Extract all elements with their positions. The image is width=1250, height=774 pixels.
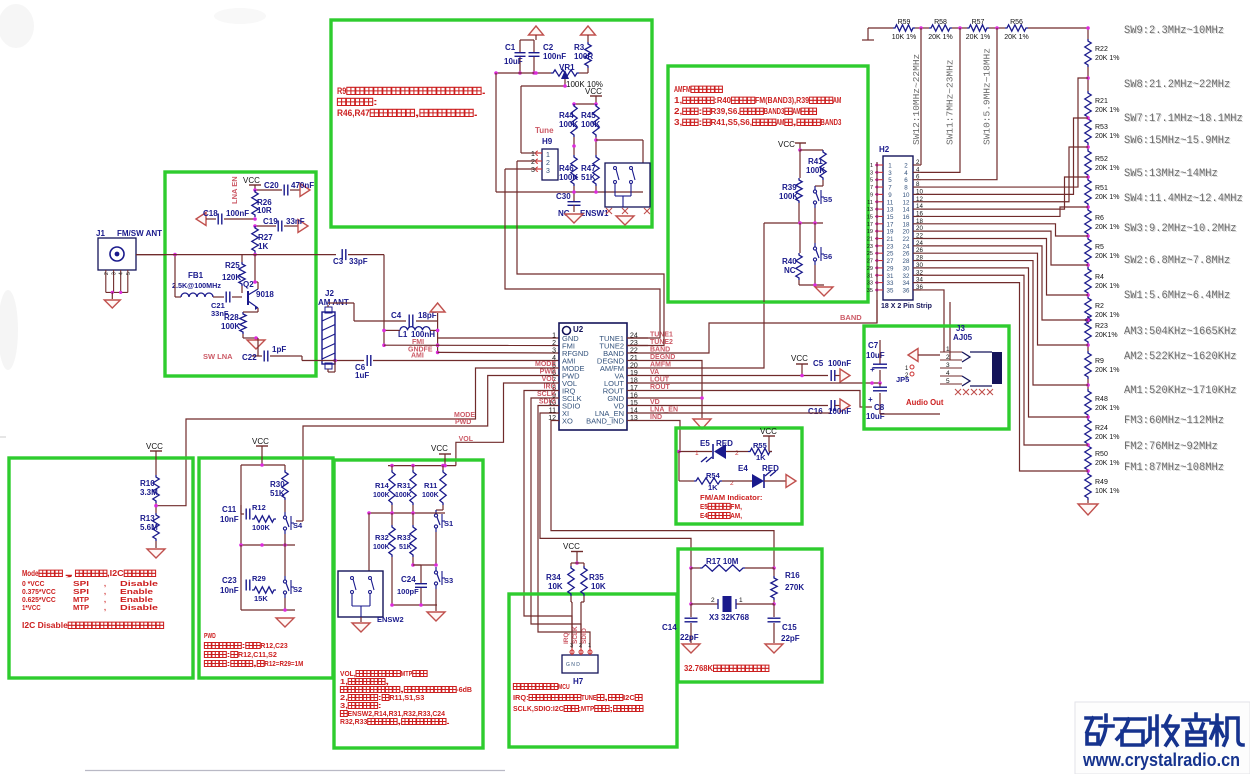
svg-text:100nF: 100nF xyxy=(828,359,851,368)
svg-text:100K: 100K xyxy=(581,120,600,129)
svg-text:13: 13 xyxy=(887,207,894,214)
svg-text:17: 17 xyxy=(887,221,894,228)
svg-text:16: 16 xyxy=(903,214,910,221)
svg-text:1: 1 xyxy=(946,346,950,353)
svg-text:R6: R6 xyxy=(1095,215,1104,222)
svg-text:I2C: I2C xyxy=(623,693,635,702)
svg-text:2: 2 xyxy=(711,597,715,604)
svg-text:J2: J2 xyxy=(325,289,334,298)
svg-text:C16: C16 xyxy=(808,407,823,416)
svg-text:AM2:522KHz~1620KHz: AM2:522KHz~1620KHz xyxy=(1124,351,1237,363)
svg-text:20K 1%: 20K 1% xyxy=(1095,434,1120,441)
svg-text:H7: H7 xyxy=(573,677,584,686)
svg-text:10nF: 10nF xyxy=(220,515,239,524)
svg-text:C20: C20 xyxy=(264,181,279,190)
svg-text:S6: S6 xyxy=(823,252,832,261)
svg-text:10K 1%: 10K 1% xyxy=(892,34,917,41)
svg-text:20K 1%: 20K 1% xyxy=(1095,460,1120,467)
svg-text:C22: C22 xyxy=(242,353,257,362)
svg-text:10K: 10K xyxy=(591,582,606,591)
svg-text:C24: C24 xyxy=(401,575,416,584)
svg-text:R25: R25 xyxy=(225,261,240,270)
svg-text:R17 10M: R17 10M xyxy=(706,557,739,566)
svg-text:Tune: Tune xyxy=(535,126,554,135)
svg-text:23: 23 xyxy=(867,244,873,250)
svg-text:100nF: 100nF xyxy=(828,407,851,416)
svg-text:FMI: FMI xyxy=(412,339,424,346)
svg-text:R12: R12 xyxy=(252,503,266,512)
svg-text::: : xyxy=(698,118,702,127)
svg-text:L1: L1 xyxy=(398,330,408,339)
svg-text:20K 1%: 20K 1% xyxy=(1095,194,1120,201)
svg-text:3: 3 xyxy=(946,362,950,369)
svg-text:100nF: 100nF xyxy=(543,52,566,61)
svg-text:C30: C30 xyxy=(556,192,571,201)
svg-text:MTP: MTP xyxy=(73,603,89,612)
svg-text:1: 1 xyxy=(870,163,873,169)
svg-text:SW11:7MHz~23MHz: SW11:7MHz~23MHz xyxy=(945,59,956,145)
svg-text:26: 26 xyxy=(903,251,910,258)
svg-text:25: 25 xyxy=(867,251,873,257)
svg-text:20K 1%: 20K 1% xyxy=(1095,367,1120,374)
svg-text:3: 3 xyxy=(870,170,873,176)
svg-text:G N D: G N D xyxy=(566,662,580,668)
svg-text:J1: J1 xyxy=(96,229,105,238)
svg-text:9018: 9018 xyxy=(256,290,274,299)
svg-text:20K1%: 20K1% xyxy=(1095,332,1118,339)
svg-text:1K: 1K xyxy=(756,453,766,462)
svg-text:+: + xyxy=(868,395,873,404)
svg-text:SCLK: SCLK xyxy=(572,626,579,644)
svg-text:2: 2 xyxy=(579,643,582,649)
svg-text:AM: AM xyxy=(833,96,842,105)
svg-text:;MTP: ;MTP xyxy=(579,704,595,713)
svg-text:18 X 2 Pin Strip: 18 X 2 Pin Strip xyxy=(881,303,932,310)
svg-text:AJ05: AJ05 xyxy=(953,333,973,342)
svg-text:15: 15 xyxy=(887,214,894,221)
svg-text:100nF: 100nF xyxy=(226,209,249,218)
svg-text:4: 4 xyxy=(904,170,908,177)
svg-text:21: 21 xyxy=(867,237,873,243)
svg-text:IRQ: IRQ xyxy=(563,632,570,644)
svg-text:AM,: AM, xyxy=(730,511,742,520)
svg-text:C1: C1 xyxy=(505,43,516,52)
svg-text:27: 27 xyxy=(887,258,894,265)
svg-text:1pF: 1pF xyxy=(272,345,286,354)
svg-text:VCC: VCC xyxy=(778,140,795,149)
svg-text:20K 1%: 20K 1% xyxy=(1095,107,1120,114)
svg-text:AM: AM xyxy=(792,107,801,116)
svg-text:VOL: VOL xyxy=(542,376,557,383)
svg-text:3: 3 xyxy=(552,348,556,355)
svg-text:,I2C: ,I2C xyxy=(107,569,124,578)
svg-text:C15: C15 xyxy=(782,623,797,632)
svg-text:R33: R33 xyxy=(397,533,411,542)
svg-text:NC: NC xyxy=(784,266,796,275)
svg-text:SW9:2.3MHz~10MHz: SW9:2.3MHz~10MHz xyxy=(1124,25,1224,37)
svg-text:R12,C11,S2: R12,C11,S2 xyxy=(238,650,277,659)
svg-text:R44: R44 xyxy=(559,111,574,120)
svg-text:R57: R57 xyxy=(972,19,985,26)
svg-text:SW4:11.4MHz~12.4MHz: SW4:11.4MHz~12.4MHz xyxy=(1124,193,1243,205)
svg-text:,: , xyxy=(792,118,796,127)
svg-text:C3: C3 xyxy=(333,257,344,266)
svg-text:SW8:21.2MHz~22MHz: SW8:21.2MHz~22MHz xyxy=(1124,79,1230,91)
svg-text:34: 34 xyxy=(903,280,910,287)
svg-text:24: 24 xyxy=(903,243,910,250)
svg-text:270K: 270K xyxy=(785,583,804,592)
svg-text:AM1:520KHz~1710KHz: AM1:520KHz~1710KHz xyxy=(1124,385,1237,397)
svg-text:IRQ:: IRQ: xyxy=(513,693,529,702)
svg-text:100K: 100K xyxy=(806,166,825,175)
svg-text:20K 1%: 20K 1% xyxy=(1095,405,1120,412)
svg-text:AMI: AMI xyxy=(411,353,424,360)
svg-text:VCC: VCC xyxy=(563,542,580,551)
svg-text:14: 14 xyxy=(903,207,910,214)
svg-text:MCU: MCU xyxy=(558,682,570,691)
svg-text:20K 1%: 20K 1% xyxy=(1004,34,1029,41)
svg-text:10R: 10R xyxy=(257,206,272,215)
svg-text:R12,C23: R12,C23 xyxy=(260,641,287,650)
svg-text:C14: C14 xyxy=(662,623,677,632)
svg-text:R2: R2 xyxy=(1095,303,1104,310)
svg-text:SW6:15MHz~15.9MHz: SW6:15MHz~15.9MHz xyxy=(1124,135,1230,147)
svg-text:-6dB: -6dB xyxy=(456,685,472,694)
svg-text:S1: S1 xyxy=(444,519,453,528)
svg-text:R54: R54 xyxy=(706,471,721,480)
svg-text:4: 4 xyxy=(119,272,125,275)
svg-text:VCC: VCC xyxy=(791,354,808,363)
svg-text::: : xyxy=(373,97,378,107)
svg-text:R49: R49 xyxy=(1095,479,1108,486)
svg-text:2: 2 xyxy=(946,354,950,361)
svg-text:R55: R55 xyxy=(753,441,767,450)
svg-text:LNA EN: LNA EN xyxy=(230,176,239,204)
svg-text:R58: R58 xyxy=(934,19,947,26)
svg-text:20K 1%: 20K 1% xyxy=(1095,165,1120,172)
svg-text:51K: 51K xyxy=(399,544,412,551)
svg-text:R39,S6.: R39,S6. xyxy=(710,107,739,116)
svg-text:SCLK,SDIO:I2C: SCLK,SDIO:I2C xyxy=(513,704,564,713)
svg-text:R34: R34 xyxy=(546,573,561,582)
svg-text:20K 1%: 20K 1% xyxy=(1095,133,1120,140)
svg-text:I2C Disable: I2C Disable xyxy=(22,621,68,630)
svg-text:E4: E4 xyxy=(738,464,748,473)
svg-text:.: . xyxy=(481,86,486,96)
svg-text:;: ; xyxy=(609,704,613,713)
svg-text:SCLK: SCLK xyxy=(537,391,556,398)
svg-text:100nH: 100nH xyxy=(411,330,435,339)
svg-text:20K 1%: 20K 1% xyxy=(1095,55,1120,62)
svg-text:100K: 100K xyxy=(373,492,390,499)
svg-text:3: 3 xyxy=(112,272,118,275)
svg-text:35: 35 xyxy=(867,288,873,294)
svg-text:10K 1%: 10K 1% xyxy=(1095,488,1120,495)
svg-text:27: 27 xyxy=(867,259,873,265)
svg-text:33: 33 xyxy=(887,280,894,287)
svg-text:SW7:17.1MHz~18.1MHz: SW7:17.1MHz~18.1MHz xyxy=(1124,113,1243,125)
svg-text:MODE: MODE xyxy=(535,361,556,368)
svg-text:1: 1 xyxy=(546,152,550,159)
svg-text:R22: R22 xyxy=(1095,46,1108,53)
svg-text:5: 5 xyxy=(126,272,132,275)
svg-text:R41,S5,S6,: R41,S5,S6, xyxy=(710,118,752,127)
svg-text:R29: R29 xyxy=(252,574,266,583)
svg-text:FM2:76MHz~92MHz: FM2:76MHz~92MHz xyxy=(1124,441,1218,453)
svg-text:8: 8 xyxy=(904,185,908,192)
svg-text:VCC: VCC xyxy=(146,442,163,451)
svg-text:FB1: FB1 xyxy=(188,271,204,280)
svg-text:X3 32K768: X3 32K768 xyxy=(709,613,750,622)
svg-text:31: 31 xyxy=(867,273,873,279)
svg-text:,: , xyxy=(415,108,420,118)
svg-text:32.768K: 32.768K xyxy=(684,664,713,673)
svg-text:1: 1 xyxy=(888,163,892,170)
svg-text:R45: R45 xyxy=(581,111,596,120)
svg-text:SW3:9.2MHz~10.2MHz: SW3:9.2MHz~10.2MHz xyxy=(1124,223,1237,235)
svg-text:S5: S5 xyxy=(823,195,832,204)
svg-text:15K: 15K xyxy=(254,594,268,603)
svg-text:2: 2 xyxy=(546,160,550,167)
svg-text:SW10:5.9MHz~18MHz: SW10:5.9MHz~18MHz xyxy=(982,48,993,145)
svg-text:PWD: PWD xyxy=(204,631,216,640)
svg-text:Q2: Q2 xyxy=(243,280,254,289)
svg-text:FM1:87MHz~108MHz: FM1:87MHz~108MHz xyxy=(1124,462,1224,474)
svg-text:4: 4 xyxy=(946,370,950,377)
svg-text:2: 2 xyxy=(104,272,110,275)
svg-text:3,: 3, xyxy=(674,118,682,127)
svg-text:R52: R52 xyxy=(1095,156,1108,163)
svg-text:20K 1%: 20K 1% xyxy=(1095,283,1120,290)
svg-text:.: . xyxy=(473,108,478,118)
svg-text:VCC: VCC xyxy=(431,444,448,453)
svg-text:1: 1 xyxy=(531,151,535,158)
svg-text:7: 7 xyxy=(888,185,892,192)
svg-text:31: 31 xyxy=(887,273,894,280)
svg-text:,: , xyxy=(104,603,106,612)
svg-text:29: 29 xyxy=(867,266,873,272)
svg-text:R16: R16 xyxy=(785,571,800,580)
svg-text:AMFM: AMFM xyxy=(674,85,691,94)
svg-text:U2: U2 xyxy=(573,325,584,334)
svg-text:VCC: VCC xyxy=(760,427,777,436)
svg-text:2: 2 xyxy=(531,159,535,166)
svg-text:100K: 100K xyxy=(422,492,439,499)
svg-text:SW2:6.8MHz~7.8MHz: SW2:6.8MHz~7.8MHz xyxy=(1124,255,1230,267)
svg-text:R27: R27 xyxy=(258,233,273,242)
svg-text:5: 5 xyxy=(946,378,950,385)
svg-text:R41: R41 xyxy=(808,157,823,166)
svg-text:51K: 51K xyxy=(581,173,596,182)
svg-text:30: 30 xyxy=(903,265,910,272)
svg-text:5: 5 xyxy=(870,178,873,184)
svg-text:PWD: PWD xyxy=(540,369,556,376)
svg-text:SW12:10MHz~22MHz: SW12:10MHz~22MHz xyxy=(911,54,922,145)
svg-text:100K: 100K xyxy=(395,492,412,499)
svg-text:FM(BAND3),R39: FM(BAND3),R39 xyxy=(755,96,810,105)
svg-text:,: , xyxy=(63,569,76,578)
svg-text:3: 3 xyxy=(546,168,550,175)
svg-text:BAND: BAND xyxy=(840,313,862,322)
svg-text:BAND3: BAND3 xyxy=(821,118,842,127)
svg-text:100K: 100K xyxy=(559,173,578,182)
svg-text:C8: C8 xyxy=(874,403,885,412)
svg-text:SDIO: SDIO xyxy=(539,399,557,406)
svg-text:22pF: 22pF xyxy=(781,634,800,643)
svg-text:SW1:5.6MHz~6.4MHz: SW1:5.6MHz~6.4MHz xyxy=(1124,290,1230,302)
svg-text:28: 28 xyxy=(903,258,910,265)
svg-text:R23: R23 xyxy=(1095,323,1108,330)
svg-text:1K: 1K xyxy=(708,483,718,492)
svg-text:C18: C18 xyxy=(203,209,218,218)
svg-text:10K: 10K xyxy=(548,582,563,591)
svg-text:20: 20 xyxy=(903,229,910,236)
svg-text:R9: R9 xyxy=(337,86,346,96)
svg-text:C19: C19 xyxy=(263,217,278,226)
svg-text:H9: H9 xyxy=(542,137,553,146)
svg-text:SDIO: SDIO xyxy=(581,628,588,644)
svg-text:100R: 100R xyxy=(574,52,593,61)
svg-text:VOL: VOL xyxy=(459,436,474,443)
svg-text:S4: S4 xyxy=(293,521,303,530)
svg-text:1K: 1K xyxy=(258,242,268,251)
svg-text:1: 1 xyxy=(552,333,556,340)
svg-text:.: . xyxy=(446,717,450,726)
svg-text:R40: R40 xyxy=(782,257,797,266)
svg-text:S2: S2 xyxy=(293,585,302,594)
svg-text:S3: S3 xyxy=(444,576,453,585)
svg-text:ENSW2: ENSW2 xyxy=(377,615,404,624)
svg-text:22pF: 22pF xyxy=(680,633,699,642)
svg-text:BAND_IND: BAND_IND xyxy=(586,417,625,426)
svg-text:5.6M: 5.6M xyxy=(140,523,158,532)
svg-text:R5: R5 xyxy=(1095,244,1104,251)
svg-text:E5: E5 xyxy=(700,439,710,448)
svg-text:1*VCC: 1*VCC xyxy=(22,603,41,612)
svg-text:XO: XO xyxy=(562,417,573,426)
svg-text:R53: R53 xyxy=(1095,124,1108,131)
svg-text:10nF: 10nF xyxy=(220,586,239,595)
svg-text:1: 1 xyxy=(588,643,591,649)
svg-text:FM3:60MHz~112MHz: FM3:60MHz~112MHz xyxy=(1124,415,1224,427)
svg-text:,: , xyxy=(397,717,401,726)
svg-text:20K 1%: 20K 1% xyxy=(966,34,991,41)
svg-text:R4: R4 xyxy=(1095,274,1104,281)
svg-text:3: 3 xyxy=(888,170,892,177)
svg-text:R13: R13 xyxy=(140,514,155,523)
svg-text:19: 19 xyxy=(867,229,873,235)
svg-text:21: 21 xyxy=(887,236,894,243)
svg-text:R48: R48 xyxy=(1095,396,1108,403)
svg-text:11: 11 xyxy=(867,200,873,206)
svg-text:36: 36 xyxy=(903,287,910,294)
svg-text:33nF: 33nF xyxy=(286,217,305,226)
svg-text:C2: C2 xyxy=(543,43,554,52)
svg-text:R30: R30 xyxy=(270,480,285,489)
svg-text:9: 9 xyxy=(888,192,892,199)
svg-text:SW5:13MHz~14MHz: SW5:13MHz~14MHz xyxy=(1124,168,1218,180)
svg-text:R9: R9 xyxy=(1095,358,1104,365)
svg-text:R11,S1,S3: R11,S1,S3 xyxy=(389,693,424,702)
svg-text:R59: R59 xyxy=(898,19,911,26)
svg-text:10uF: 10uF xyxy=(504,57,523,66)
svg-text:,: , xyxy=(253,659,257,668)
svg-text:7: 7 xyxy=(870,185,873,191)
svg-text:8: 8 xyxy=(916,181,920,188)
svg-text:33pF: 33pF xyxy=(349,257,368,266)
svg-text:32: 32 xyxy=(903,273,910,280)
svg-text:R24: R24 xyxy=(1095,425,1108,432)
svg-text:C5: C5 xyxy=(813,359,824,368)
svg-text::R40: :R40 xyxy=(714,96,731,105)
svg-text:MODE: MODE xyxy=(454,412,475,419)
svg-text:R12=R29=1M: R12=R29=1M xyxy=(264,659,303,668)
svg-text:TUNE: TUNE xyxy=(581,693,597,702)
svg-text:100K: 100K xyxy=(373,544,390,551)
svg-text:R35: R35 xyxy=(589,573,604,582)
svg-text:C4: C4 xyxy=(391,311,402,320)
svg-text:1: 1 xyxy=(739,597,743,604)
svg-text::: : xyxy=(242,641,246,650)
svg-text:FM,: FM, xyxy=(730,502,742,511)
svg-text:E4: E4 xyxy=(700,511,708,520)
svg-text:4: 4 xyxy=(916,166,920,173)
svg-text:2,: 2, xyxy=(674,107,682,116)
svg-text:25: 25 xyxy=(887,251,894,258)
svg-text:100pF: 100pF xyxy=(397,587,419,596)
svg-text:3: 3 xyxy=(570,643,573,649)
svg-text:R46: R46 xyxy=(559,164,574,173)
svg-text:22: 22 xyxy=(903,236,910,243)
svg-text:VCC: VCC xyxy=(585,87,602,96)
svg-text:51K: 51K xyxy=(270,489,285,498)
svg-text:1,: 1, xyxy=(674,96,682,105)
svg-text:3.3M: 3.3M xyxy=(140,488,158,497)
svg-text:C11: C11 xyxy=(222,505,237,514)
svg-text:R50: R50 xyxy=(1095,451,1108,458)
svg-text:6: 6 xyxy=(916,174,920,181)
svg-text:120K: 120K xyxy=(222,273,241,282)
svg-text:R3: R3 xyxy=(574,43,585,52)
svg-text:2: 2 xyxy=(552,340,556,347)
svg-text:H2: H2 xyxy=(879,145,890,154)
svg-text:1: 1 xyxy=(695,450,699,457)
svg-text:11: 11 xyxy=(887,199,894,206)
svg-text:3: 3 xyxy=(531,167,535,174)
svg-text:R47: R47 xyxy=(581,164,596,173)
svg-text:R10: R10 xyxy=(140,479,155,488)
svg-text:R14: R14 xyxy=(375,481,390,490)
svg-text:10uF: 10uF xyxy=(866,412,885,421)
svg-text:IRQ: IRQ xyxy=(544,384,557,391)
svg-text:R51: R51 xyxy=(1095,185,1108,192)
svg-text:33: 33 xyxy=(867,281,873,287)
svg-text:35: 35 xyxy=(887,287,894,294)
svg-text:R32,R33: R32,R33 xyxy=(340,717,367,726)
svg-text:R39: R39 xyxy=(782,183,797,192)
svg-text::: : xyxy=(698,107,702,116)
svg-text:100K: 100K xyxy=(252,523,271,532)
svg-text:6: 6 xyxy=(904,177,908,184)
svg-text:R21: R21 xyxy=(1095,98,1108,105)
svg-text:19: 19 xyxy=(887,229,894,236)
svg-text:VCC: VCC xyxy=(252,437,269,446)
svg-text:2: 2 xyxy=(916,159,920,166)
svg-text::: : xyxy=(227,659,231,668)
svg-text:E5: E5 xyxy=(700,502,708,511)
svg-text:FM/SW ANT: FM/SW ANT xyxy=(117,229,162,238)
svg-text:Audio Out: Audio Out xyxy=(906,398,944,407)
